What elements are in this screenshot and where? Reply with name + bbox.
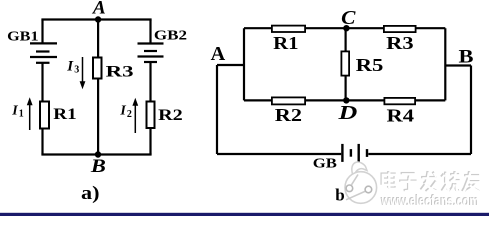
svg-text:B: B (459, 46, 474, 67)
svg-text:a): a) (81, 183, 100, 204)
svg-text:GB2: GB2 (154, 27, 188, 42)
svg-text:A: A (92, 0, 106, 18)
svg-text:B: B (90, 156, 106, 177)
svg-text:R2: R2 (158, 107, 183, 124)
svg-text:R3: R3 (106, 63, 134, 80)
svg-text:R1: R1 (53, 106, 76, 123)
svg-text:R1: R1 (273, 33, 299, 53)
svg-text:I: I (11, 103, 18, 118)
svg-text:1: 1 (19, 109, 24, 120)
svg-text:C: C (341, 8, 356, 29)
svg-text:R5: R5 (356, 55, 384, 75)
svg-text:I: I (66, 59, 74, 75)
svg-text:I: I (119, 104, 126, 119)
svg-text:A: A (211, 43, 226, 65)
svg-text:GB: GB (313, 157, 337, 172)
svg-text:www.elecfans.com: www.elecfans.com (381, 194, 479, 210)
svg-text:R4: R4 (387, 105, 415, 125)
svg-text:R2: R2 (275, 105, 302, 125)
svg-text:3: 3 (74, 65, 79, 76)
svg-text:R3: R3 (386, 33, 414, 53)
svg-text:GB1: GB1 (7, 28, 39, 43)
svg-text:D: D (337, 102, 357, 124)
svg-text:b: b (335, 185, 344, 204)
svg-text:2: 2 (127, 109, 132, 120)
